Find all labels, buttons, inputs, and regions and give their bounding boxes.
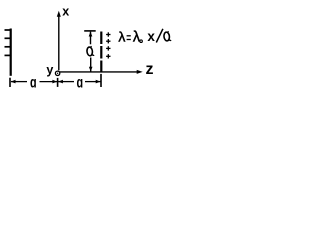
svg-text:y: y [46,63,53,77]
svg-text:λ: λ [133,30,141,46]
svg-text:x: x [62,5,69,19]
svg-text:ɑ: ɑ [77,74,84,91]
svg-text:x: x [147,29,155,44]
svg-text:λ: λ [118,29,125,45]
svg-text:ɑ: ɑ [30,74,37,91]
svg-text:z: z [146,61,154,78]
